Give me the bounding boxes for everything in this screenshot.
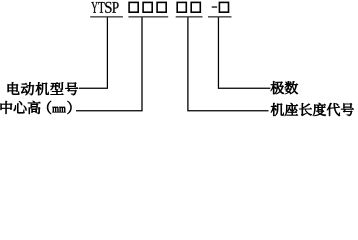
underline under frame-length boxes <box>176 16 203 17</box>
placeholder box 3 (center height digit 3) <box>157 2 166 12</box>
placeholder box 1 (center height digit 1) <box>129 2 138 12</box>
label: center height (zhong xin gao) <box>1 101 13 114</box>
underline under pole box <box>208 16 232 17</box>
placeholder box 6 (pole number) <box>219 2 228 12</box>
hyphen before pole box <box>212 6 217 7</box>
placeholder box 4 (frame length code 1) <box>177 2 186 12</box>
opening fullwidth paren <box>47 101 51 114</box>
leader line from YTSP down-left to motor model label <box>79 18 107 89</box>
placeholder box 5 (frame length code 2) <box>191 2 200 12</box>
closing fullwidth paren <box>68 101 72 114</box>
label: frame length code (ji zuo chang du dai hao) <box>271 103 284 116</box>
leader line from first box group down-left to center height label <box>76 18 142 111</box>
leader line from second box group down-right to frame length label <box>188 18 269 111</box>
underline under YTSP <box>90 16 123 17</box>
label: poles (ji shu) <box>271 81 284 94</box>
leader line from pole box down-right to poles label <box>218 18 270 89</box>
label: motor model (dian dong ji xing hao) <box>8 82 20 95</box>
text YTSP (motor series code) <box>91 2 118 13</box>
unit mm <box>52 107 58 113</box>
underline under center-height boxes <box>128 16 168 17</box>
placeholder box 2 (center height digit 2) <box>143 2 152 12</box>
